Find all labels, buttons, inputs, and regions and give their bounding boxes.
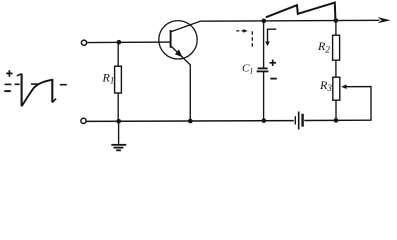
wire: R2 to R3 lead bbox=[335, 60, 337, 77]
input waveform icon: exponential recovery curve bbox=[22, 80, 54, 107]
wire: top input to transistor base bbox=[87, 41, 171, 44]
input terminal top bbox=[81, 40, 86, 45]
svg-text:C1: C1 bbox=[242, 63, 253, 76]
node: emitter / bottom rail junction dot bbox=[188, 119, 193, 124]
input waveform icon: leading stub bbox=[17, 74, 22, 76]
transistor Q1 emitter bbox=[171, 46, 190, 65]
wire: ground lead bbox=[118, 121, 120, 144]
input waveform icon: bottom hook of second edge bbox=[52, 99, 56, 103]
node: base wire / R1 junction dot bbox=[117, 40, 122, 45]
svg-text:R2: R2 bbox=[317, 39, 330, 54]
battery GB1 long plate bbox=[298, 112, 300, 130]
input waveform icon: dashed zero baseline bbox=[5, 83, 67, 86]
battery GB1 thick plate bbox=[301, 114, 303, 127]
capacitor C1 plus sign bbox=[270, 60, 277, 66]
svg-text:R3: R3 bbox=[319, 78, 332, 93]
capacitor C1 top plate bbox=[258, 67, 268, 69]
wire: R1 bottom lead bbox=[117, 93, 119, 121]
wire: R1 top lead bbox=[117, 42, 119, 66]
sawtooth output waveform symbol bbox=[266, 3, 336, 20]
solid discharge-current arrow (right of C1) bbox=[265, 29, 276, 46]
wire: emitter down to bottom rail bbox=[189, 65, 191, 122]
node: C1 / bottom rail junction dot bbox=[261, 118, 266, 123]
dashed charge-current arrow (left of C1) bbox=[236, 29, 252, 48]
battery GB1 short plate bbox=[294, 116, 296, 124]
input waveform icon: plus sign bbox=[6, 70, 12, 77]
capacitor C1 bottom plate bbox=[257, 70, 269, 72]
node: top rail / C1 junction dot bbox=[261, 19, 266, 24]
transistor Q1 collector bbox=[171, 21, 200, 32]
wire: bottom rail left of battery bbox=[86, 120, 294, 123]
resistor R1 bbox=[115, 66, 122, 93]
wire: bottom rail right of battery bbox=[304, 119, 371, 121]
transistor Q1 emitter arrowhead bbox=[175, 49, 183, 57]
wire: R3 bottom lead bbox=[335, 100, 337, 120]
input waveform icon: first falling edge bbox=[21, 74, 23, 107]
input terminal bottom bbox=[81, 118, 86, 123]
node: ground junction dot bbox=[116, 119, 121, 124]
wire: collector top rail bbox=[200, 19, 380, 22]
resistor R2 bbox=[333, 35, 340, 60]
capacitor C1 minus sign bbox=[270, 78, 277, 80]
transistor Q1 base bar bbox=[170, 30, 172, 48]
node: top rail / R2 junction dot bbox=[333, 18, 338, 23]
wire: R3 wiper to right bbox=[346, 87, 371, 121]
output arrowhead bbox=[378, 17, 391, 23]
node: R3 / bottom rail junction dot bbox=[334, 118, 339, 123]
input waveform icon: second falling edge bbox=[51, 80, 53, 103]
input waveform icon: minus sign bbox=[4, 90, 11, 92]
ground symbol bbox=[111, 145, 126, 151]
transistor Q1 circle bbox=[159, 21, 197, 59]
wire: C1 bottom lead bbox=[263, 71, 265, 120]
R3 wiper arrowhead bbox=[341, 84, 347, 89]
wire: C1 top lead bbox=[263, 21, 265, 68]
wire: R2 top lead bbox=[335, 21, 337, 36]
resistor R3 (rheostat) bbox=[333, 77, 340, 100]
svg-text:R1: R1 bbox=[102, 71, 115, 86]
